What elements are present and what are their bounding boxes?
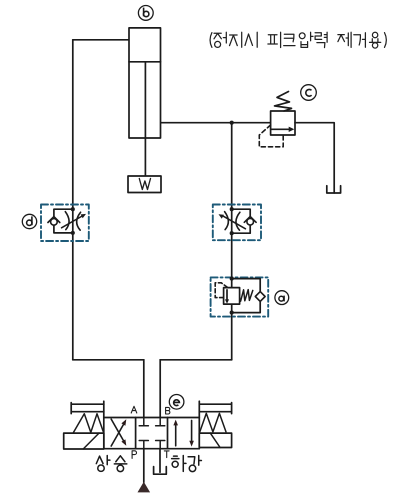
directional valve E body [104,418,200,449]
tank symbol (T port) [154,467,167,475]
mid flow control valve enclosure (dash-dot) [213,205,261,241]
relief valve C box [271,111,295,135]
flow control valve D enclosure (dash-dot) [41,205,89,242]
valve A check diamond [255,292,265,302]
valve E left box crossed arrows [111,419,123,446]
char 시 [245,32,257,47]
port label B [166,407,170,414]
node: valve A top junction [230,277,234,281]
node: valve D top junction [71,207,75,211]
port label P [132,451,136,459]
mid valve throttle arcs [225,212,240,231]
right solenoid bracket [199,403,231,414]
mid valve bypass wire [232,209,251,233]
node: mid valve bottom junction [230,231,234,235]
valve A bypass wire [232,279,261,313]
valve D check ball [51,219,58,226]
wire: A port vertical down to directional valve [143,360,145,418]
wire: cylinder rod-end port to relief valve inlet [161,122,271,124]
label W [139,179,150,190]
char 거 [354,33,366,47]
counterbalance valve A enclosure (dash-dot) [211,277,269,316]
mid valve check seat [244,217,256,223]
wire: relief valve outlet to drain [295,123,334,193]
wire: middle vertical branch (through mid flow valve and valve a) [231,123,233,360]
wire: P port down to pressure source [143,449,145,483]
char 력 [315,32,327,47]
right return spring [200,413,226,432]
relief valve C spring [275,92,292,112]
label circled d [22,214,36,228]
left body edge extension [103,401,105,417]
mid valve adjust arrow [223,216,245,229]
left return spring [74,414,104,433]
right solenoid diagonal [210,433,220,447]
valve D throttle arcs [65,212,80,231]
char 압 [299,32,313,47]
wire: T port down to tank [159,449,161,473]
label circled b [138,5,153,20]
valve A spring [241,290,253,302]
node: valve D bottom junction [71,231,75,235]
tank symbol (relief drain) [327,186,341,193]
paren ( [210,33,212,48]
right solenoid box [199,433,231,447]
wire: left branch bottom horizontal to A line [73,359,144,361]
valve D check seat [48,217,60,223]
wire: B port vertical down to directional valve [159,360,161,418]
valve E center box blocked ports [139,418,165,426]
wire: left vertical branch (through valve d) [72,40,74,360]
valve A internal arrow (down) [226,290,228,300]
relief valve C internal arrow [271,128,290,130]
label circled a [275,291,289,305]
right body edge extension [198,401,200,417]
weight W box [128,176,161,193]
valve A body box [224,288,240,305]
cylinder rod [144,62,146,176]
cylinder piston [129,61,161,63]
label korean 하강 [172,456,202,472]
left solenoid box [64,433,104,449]
title korean text: (정지시 피크압력 제거용) [210,32,386,48]
char 정 [214,32,226,47]
left solenoid bracket [71,403,104,414]
label circled c [301,85,317,101]
node: mid valve top junction [230,207,234,211]
valve A pilot line (dashed) [215,283,229,298]
pressure source triangle [138,482,151,493]
label korean 상승 [96,456,127,472]
valve E right box arrows [175,425,177,446]
port label A [131,406,137,413]
mid valve check ball [247,218,254,225]
left solenoid diagonal [83,433,99,449]
char 크 [284,34,295,45]
wire: right branch bottom horizontal to B line [160,359,232,361]
wire: top-left horizontal from left branch to cylinder cap port [73,39,129,41]
node: junction on rod-end line to middle branch [230,121,234,125]
char 제 [338,32,351,47]
char 지 [230,32,242,47]
node: valve A bottom junction [230,311,234,315]
valve D bypass wire [54,209,73,233]
char 피 [268,32,281,47]
paren ) [385,33,387,48]
cylinder B body [129,28,161,138]
port label T [164,451,169,458]
relief valve C pilot line (dashed) [259,125,283,147]
label circled e [169,395,184,410]
char 용 [370,32,381,48]
valve D adjust arrow [62,216,83,228]
